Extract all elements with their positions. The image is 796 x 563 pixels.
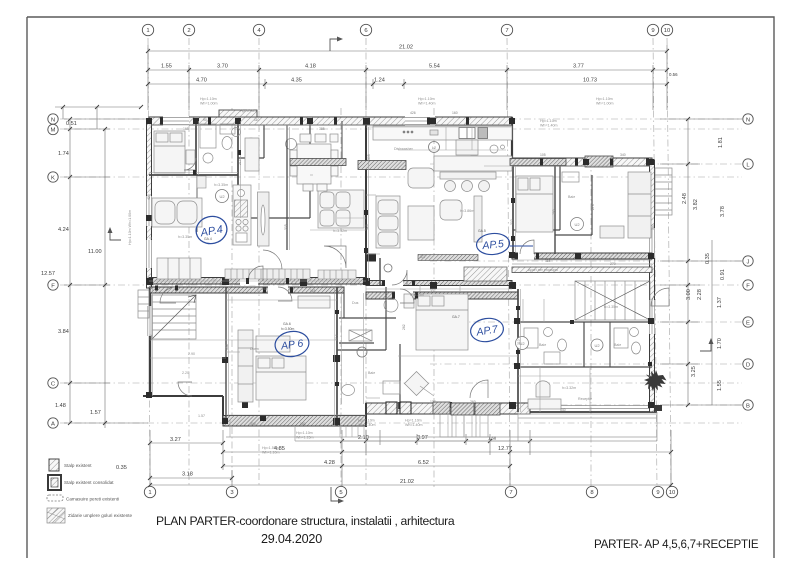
staircase right (reception) <box>575 281 650 320</box>
bottom wall AP6 <box>223 416 366 427</box>
reception door arc bottom <box>470 380 488 398</box>
WC circle symbol U2 <box>216 190 229 203</box>
svg-text:Dishwasher: Dishwasher <box>394 147 414 151</box>
svg-text:0.35: 0.35 <box>705 253 711 264</box>
svg-text:310: 310 <box>517 339 521 345</box>
svg-text:N: N <box>746 117 750 123</box>
entrance walkway bottom <box>440 412 488 437</box>
AP4 kitchen door arc <box>263 250 282 269</box>
misc vent circles <box>429 142 440 153</box>
svg-text:358: 358 <box>225 344 229 350</box>
corridor top window hatches <box>290 159 566 170</box>
svg-text:305: 305 <box>367 154 371 160</box>
AP4 kitchen counter <box>233 185 269 246</box>
AP5 hall wall <box>379 258 381 285</box>
bottom-left step wall <box>143 395 223 397</box>
svg-text:137: 137 <box>430 400 436 404</box>
AP7 bed <box>404 294 468 350</box>
svg-text:0.35: 0.35 <box>116 465 127 471</box>
right exterior wall <box>650 160 655 412</box>
svg-text:2.20: 2.20 <box>182 371 189 375</box>
svg-text:262: 262 <box>402 324 406 330</box>
section mark bottom <box>331 487 340 501</box>
lower-left exterior wall <box>149 288 151 396</box>
svg-text:380: 380 <box>651 224 655 230</box>
AP4 bath fixtures <box>200 124 235 163</box>
svg-text:1.24: 1.24 <box>374 78 385 84</box>
svg-text:Wh=1.40m: Wh=1.40m <box>358 423 375 427</box>
svg-text:7: 7 <box>505 28 508 34</box>
svg-text:217: 217 <box>238 159 242 165</box>
svg-text:Camasuire pereti existenti: Camasuire pereti existenti <box>66 497 119 502</box>
svg-text:Dus: Dus <box>352 301 359 305</box>
svg-text:J: J <box>747 259 750 265</box>
svg-text:1.81: 1.81 <box>718 137 724 148</box>
AP6 right wall <box>336 287 338 426</box>
svg-text:C: C <box>51 381 56 387</box>
svg-text:D: D <box>746 362 750 368</box>
AP6 entry door arc <box>278 287 292 301</box>
svg-text:165: 165 <box>183 127 189 131</box>
svg-text:4.18: 4.18 <box>305 64 316 70</box>
svg-text:0.51: 0.51 <box>66 121 77 127</box>
svg-text:9: 9 <box>656 490 659 496</box>
svg-text:3.78: 3.78 <box>720 206 726 217</box>
svg-text:114: 114 <box>545 259 551 263</box>
structural columns <box>146 118 654 425</box>
AP4 dining sofa <box>318 190 364 228</box>
AP5 radiator shelf <box>464 267 507 281</box>
window top-right wall <box>585 156 613 167</box>
AP7 right wall <box>517 289 519 412</box>
corridor door gaps <box>240 252 534 300</box>
chimney notch top <box>219 110 257 117</box>
AP6 left room door arcs <box>160 287 176 303</box>
svg-text:1.68: 1.68 <box>488 436 497 441</box>
corridor window hatch marks bottom band <box>433 402 500 415</box>
svg-text:1: 1 <box>146 28 149 34</box>
AP6 bath fixtures <box>339 293 398 343</box>
svg-text:h=3.50m: h=3.50m <box>281 327 294 331</box>
svg-text:3.97: 3.97 <box>417 435 428 441</box>
svg-text:Stalp existent consolidat: Stalp existent consolidat <box>64 480 114 485</box>
svg-text:0.91: 0.91 <box>720 269 726 280</box>
svg-text:F: F <box>51 283 55 289</box>
svg-text:3.18: 3.18 <box>182 472 193 478</box>
step wall between top walls <box>511 117 513 166</box>
AP5 bedroom bed left <box>516 176 553 232</box>
AP4 radiator row corridor <box>225 269 356 279</box>
legend zidarie umplere <box>47 508 133 523</box>
svg-text:M: M <box>51 127 56 133</box>
grid bubbles right <box>743 114 753 410</box>
svg-text:9: 9 <box>651 28 654 34</box>
svg-text:Hp=1.10m: Hp=1.10m <box>540 119 557 123</box>
svg-text:262: 262 <box>262 287 268 291</box>
legend stalp existent <box>49 459 59 471</box>
AP5 blue ellipse <box>476 232 533 256</box>
svg-text:L2: L2 <box>432 146 436 150</box>
grid horizontal dashed lines <box>60 119 742 423</box>
svg-text:90: 90 <box>203 118 207 122</box>
tiny texts <box>178 97 621 455</box>
svg-text:Stalp existent: Stalp existent <box>64 463 92 468</box>
svg-text:3.25: 3.25 <box>691 366 697 377</box>
AP7 lower bath fixtures <box>342 344 401 402</box>
corridor band hatch AP5 bottom <box>418 255 478 261</box>
svg-text:6.52: 6.52 <box>418 460 429 466</box>
svg-text:Dorm: Dorm <box>250 347 259 351</box>
svg-text:295: 295 <box>552 209 556 215</box>
top dimension ticks <box>146 49 669 86</box>
AP4 living door arc <box>324 246 346 268</box>
svg-text:3.77: 3.77 <box>573 64 584 70</box>
section mark left <box>110 231 121 240</box>
AP5 bedroom left wall <box>512 166 514 254</box>
svg-text:B: B <box>746 403 750 409</box>
AP5 bath walls <box>559 166 561 230</box>
AP4 couch bottom <box>157 258 201 279</box>
svg-text:Wh=1.40m: Wh=1.40m <box>405 423 422 427</box>
top exterior wall AP4/AP5 <box>149 117 512 125</box>
svg-text:h=3.35m: h=3.35m <box>214 183 228 187</box>
svg-text:337: 337 <box>430 289 436 293</box>
AP6 desk <box>298 296 330 308</box>
svg-text:K: K <box>51 175 55 181</box>
AP7 bath walls <box>518 321 652 323</box>
corridor wall right part <box>512 253 652 259</box>
central corridor wall AP4 side <box>149 278 366 285</box>
AP4 hall wall <box>286 125 288 281</box>
AP6 bed <box>256 336 306 400</box>
section mark right <box>700 342 711 351</box>
svg-text:10: 10 <box>669 490 676 496</box>
svg-text:105: 105 <box>540 153 546 157</box>
svg-text:2.48: 2.48 <box>682 193 688 204</box>
svg-text:305: 305 <box>284 224 288 230</box>
svg-text:4.28: 4.28 <box>324 460 335 466</box>
svg-text:h=3.32m: h=3.32m <box>333 229 347 233</box>
svg-text:160: 160 <box>452 111 458 115</box>
svg-text:29.04.2020: 29.04.2020 <box>261 532 322 546</box>
section mark top <box>330 39 339 51</box>
svg-text:Zidarie umplere goluri existen: Zidarie umplere goluri existente <box>68 513 133 518</box>
svg-text:Hp=0.90m: Hp=0.90m <box>240 109 257 113</box>
bottom dimension ticks <box>148 439 673 487</box>
svg-text:F: F <box>746 283 750 289</box>
AP7 armchair <box>404 371 434 396</box>
svg-text:Hp=1.10m: Hp=1.10m <box>405 419 422 423</box>
tiny GA6 label <box>204 229 486 331</box>
window top wall 2 <box>405 116 435 126</box>
central corridor wall AP6 top <box>150 287 344 293</box>
svg-text:426: 426 <box>410 111 416 115</box>
window top wall 1 <box>163 116 189 126</box>
svg-text:h=3.35m: h=3.35m <box>604 305 618 309</box>
svg-text:425: 425 <box>147 194 151 200</box>
AP4 dining table <box>290 134 338 191</box>
svg-text:GA.6: GA.6 <box>283 322 291 326</box>
AP5 bar stools <box>440 172 496 192</box>
svg-text:312: 312 <box>335 334 339 340</box>
svg-text:Baie: Baie <box>568 195 575 199</box>
AP4 entry door arc <box>248 266 263 281</box>
svg-text:Hp=1.10m: Hp=1.10m <box>596 97 613 101</box>
svg-text:3.27: 3.27 <box>170 437 181 443</box>
svg-text:Receptie: Receptie <box>578 397 592 401</box>
left exterior wall <box>147 121 152 288</box>
svg-text:U2: U2 <box>574 222 580 227</box>
exterior stair door arc <box>651 288 669 306</box>
AP4 bedroom door arc <box>184 158 196 170</box>
window right wall 1 <box>649 300 655 334</box>
svg-text:E: E <box>746 320 750 326</box>
svg-text:Wh=1.40m: Wh=1.40m <box>418 102 435 106</box>
svg-text:h=3.35m: h=3.35m <box>410 293 424 297</box>
svg-text:1: 1 <box>148 490 151 496</box>
bottom dimension lines <box>150 430 671 486</box>
left dimension lines <box>55 107 148 428</box>
svg-text:2.10: 2.10 <box>358 435 369 441</box>
AP4 bedroom bed <box>154 131 195 173</box>
svg-text:1.37: 1.37 <box>717 297 723 308</box>
svg-text:h=3.86m: h=3.86m <box>460 209 474 213</box>
svg-text:21.02: 21.02 <box>399 45 413 51</box>
AP7 blue ellipse <box>469 316 505 344</box>
svg-text:110: 110 <box>254 118 260 122</box>
AP7 bath2 fixtures <box>614 328 641 355</box>
grid bubbles bottom <box>144 486 677 497</box>
grid vertical dashed lines <box>148 38 671 487</box>
svg-text:0.56: 0.56 <box>669 72 678 77</box>
AP6 bath right wall <box>385 287 387 350</box>
svg-text:h=3.35m: h=3.35m <box>178 235 192 239</box>
AP5 sofa group <box>376 168 462 248</box>
AP4 bath wall <box>237 121 239 218</box>
svg-text:Hp=1.10m: Hp=1.10m <box>200 97 217 101</box>
svg-text:118: 118 <box>310 289 316 293</box>
svg-text:340: 340 <box>620 153 626 157</box>
wall measure numbers rotated <box>147 111 655 426</box>
svg-text:10.73: 10.73 <box>583 78 597 84</box>
svg-text:Baie: Baie <box>539 343 546 347</box>
window left wall 1 <box>146 196 152 226</box>
svg-text:Baie: Baie <box>368 371 375 375</box>
svg-text:Wh=1.00m: Wh=1.00m <box>200 102 217 106</box>
svg-text:292: 292 <box>149 334 153 340</box>
svg-text:Wh=1.40m: Wh=1.40m <box>540 124 557 128</box>
svg-text:1.55: 1.55 <box>717 380 723 391</box>
grid bubbles top <box>142 24 672 35</box>
top-right exterior wall <box>484 158 652 166</box>
svg-text:302: 302 <box>510 219 514 225</box>
svg-text:11.00: 11.00 <box>88 249 102 255</box>
legend camasuire pereti <box>47 495 63 501</box>
svg-text:4.70: 4.70 <box>196 78 207 84</box>
svg-text:Wh=1.15m: Wh=1.15m <box>296 436 313 440</box>
AP6 wardrobe <box>238 330 253 402</box>
right dimension lines <box>660 119 742 405</box>
grid bubbles left <box>48 114 58 428</box>
svg-text:3.00: 3.00 <box>686 289 692 300</box>
svg-text:Hp=1.10m: Hp=1.10m <box>358 419 375 423</box>
svg-text:260: 260 <box>470 400 476 404</box>
AP5 kitchen top counter <box>373 126 512 171</box>
AP6 blue ellipse <box>273 329 310 358</box>
AP4 bedroom right wall <box>195 121 197 175</box>
window right wall 2 <box>649 228 655 258</box>
svg-text:5.54: 5.54 <box>429 64 440 70</box>
svg-text:3.84: 3.84 <box>58 329 69 335</box>
svg-text:180: 180 <box>300 422 306 426</box>
AP6 left interior wall <box>225 287 227 418</box>
AP7 entry door arc <box>400 289 414 303</box>
svg-text:4.35: 4.35 <box>291 78 302 84</box>
svg-text:4.24: 4.24 <box>58 227 69 233</box>
svg-text:Hp=1.10m Wh=1.00m: Hp=1.10m Wh=1.00m <box>128 210 132 245</box>
svg-text:305: 305 <box>250 422 256 426</box>
svg-text:1.48: 1.48 <box>55 403 66 409</box>
svg-text:Hp=1.10m: Hp=1.10m <box>418 97 435 101</box>
svg-text:N: N <box>51 117 55 123</box>
svg-text:12.77: 12.77 <box>498 446 512 452</box>
exterior stair left <box>138 290 149 318</box>
svg-text:21.02: 21.02 <box>400 479 414 485</box>
exterior stair right <box>655 168 672 215</box>
svg-text:2: 2 <box>187 28 190 34</box>
canopy terrace lines bottom <box>226 412 657 441</box>
svg-text:U2: U2 <box>594 343 600 348</box>
window left lower wall <box>147 306 153 336</box>
central corridor wall AP5 side <box>366 281 512 286</box>
svg-text:GA.7: GA.7 <box>452 315 460 319</box>
AP5 entry door arc <box>392 270 407 285</box>
svg-text:U2: U2 <box>219 194 225 199</box>
svg-text:425: 425 <box>365 224 369 230</box>
svg-text:Baie: Baie <box>614 343 621 347</box>
AP5 bath middle <box>555 166 592 254</box>
AP5 interior door arc <box>520 240 534 254</box>
svg-text:10: 10 <box>664 28 671 34</box>
svg-text:3.70: 3.70 <box>217 64 228 70</box>
AP5 wardrobe right <box>600 172 651 238</box>
svg-text:7: 7 <box>509 490 512 496</box>
svg-text:PARTER- AP 4,5,6,7+RECEPTIE: PARTER- AP 4,5,6,7+RECEPTIE <box>594 538 759 551</box>
svg-text:540: 540 <box>560 408 566 412</box>
AP4|AP5 divider wall <box>365 121 367 281</box>
misc thin detail lines upper corridor <box>149 121 652 437</box>
svg-text:2.90: 2.90 <box>188 352 195 356</box>
svg-text:GA.5: GA.5 <box>478 229 486 233</box>
central corridor wall AP7 top <box>366 292 518 299</box>
svg-text:Wh=1.10m: Wh=1.10m <box>262 451 279 455</box>
reception plant <box>644 370 667 411</box>
svg-text:Aport aer proaspat: Aport aer proaspat <box>528 268 558 272</box>
AP5 TV cabinet <box>474 196 482 242</box>
svg-text:1.57: 1.57 <box>90 410 101 416</box>
svg-text:PLAN PARTER-coordonare structu: PLAN PARTER-coordonare structura, instal… <box>156 514 455 528</box>
svg-text:2.28: 2.28 <box>697 289 703 300</box>
svg-text:273: 273 <box>591 204 595 210</box>
AP4 sofa <box>152 198 202 227</box>
reception desk <box>528 381 561 409</box>
legend stalp consolidat <box>48 475 61 490</box>
svg-text:385: 385 <box>319 127 325 131</box>
AP4 bedroom bottom wall <box>149 174 238 176</box>
svg-text:270: 270 <box>610 262 616 266</box>
door jamb marks <box>155 118 652 387</box>
svg-text:AP.5: AP.5 <box>481 238 505 252</box>
bottom wall reception <box>530 411 657 413</box>
svg-text:1.70: 1.70 <box>717 338 723 349</box>
svg-text:3.82: 3.82 <box>693 199 699 210</box>
bottom window band AP7 <box>366 403 530 414</box>
svg-text:Hp=1.55m: Hp=1.55m <box>262 446 279 450</box>
svg-text:Hp=1.10m: Hp=1.10m <box>296 431 313 435</box>
svg-text:1.74: 1.74 <box>58 151 69 157</box>
staircase lower-left <box>152 295 196 339</box>
svg-text:1.57: 1.57 <box>198 414 205 418</box>
top dimension lines <box>148 45 667 110</box>
AP4 blue ellipse <box>193 213 230 247</box>
svg-text:A: A <box>51 421 55 427</box>
AP7 bath1 fixtures <box>524 328 567 365</box>
svg-text:h=3.32m: h=3.32m <box>562 386 576 390</box>
svg-text:377: 377 <box>420 255 426 259</box>
svg-text:1.55: 1.55 <box>161 64 172 70</box>
AP4 small WC <box>232 125 297 171</box>
svg-text:12.57: 12.57 <box>41 271 55 277</box>
window left wall 2 <box>146 240 152 268</box>
svg-text:Wh=1.00m: Wh=1.00m <box>596 102 613 106</box>
